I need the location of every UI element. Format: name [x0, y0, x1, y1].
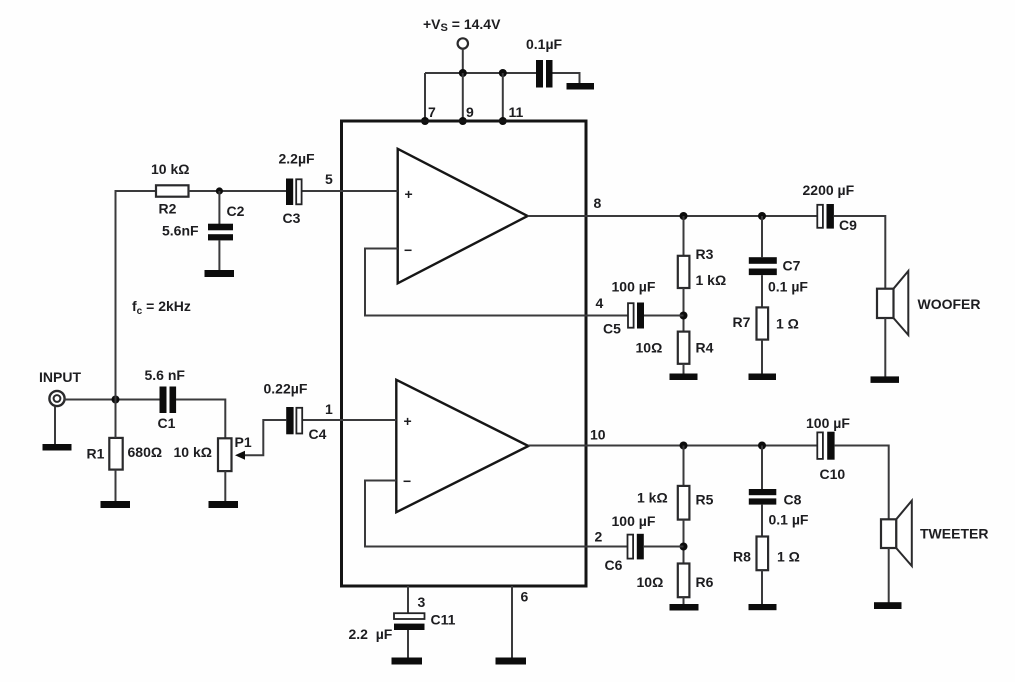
svg-text:R4: R4 [696, 340, 714, 356]
resistor R2 [151, 161, 189, 217]
wire supply vertical [462, 49, 464, 73]
svg-text:1 kΩ: 1 kΩ [696, 272, 727, 288]
wire connector ground [54, 407, 56, 445]
junction pin9 [459, 117, 467, 125]
wire C2 top [218, 191, 220, 224]
capacitor C2 [162, 203, 245, 240]
ground bypass [567, 83, 595, 90]
ground R4 [670, 374, 698, 381]
svg-text:C3: C3 [283, 210, 301, 226]
resistor R5 [637, 486, 714, 520]
svg-text:0.1 µF: 0.1 µF [769, 512, 809, 528]
wire woofer to ground [884, 318, 886, 377]
svg-text:100 µF: 100 µF [612, 279, 656, 295]
wire A2 output pin10 [528, 445, 817, 447]
resistor R7 [733, 307, 799, 339]
wire pin3 [407, 586, 409, 613]
svg-text:C8: C8 [784, 492, 802, 508]
capacitor C8 [749, 489, 809, 528]
junction rail-9 [459, 69, 467, 77]
ground R1 [101, 501, 131, 508]
junction R3-R4-C5 [680, 312, 688, 320]
svg-text:100 µF: 100 µF [612, 513, 656, 529]
svg-text:C2: C2 [227, 203, 245, 219]
wire R5 top [683, 446, 685, 486]
svg-text:6: 6 [521, 589, 529, 605]
svg-text:−: − [404, 242, 412, 258]
svg-text:0.1µF: 0.1µF [526, 36, 563, 52]
wire supply rail [425, 72, 536, 74]
svg-text:1 kΩ: 1 kΩ [637, 490, 668, 506]
svg-text:C10: C10 [820, 466, 846, 482]
svg-text:0.22µF: 0.22µF [264, 381, 308, 397]
wire pin1 input to A2 [303, 419, 396, 421]
svg-text:10Ω: 10Ω [637, 574, 664, 590]
resistor R4 [636, 332, 714, 364]
resistor R6 [637, 564, 714, 598]
svg-text:10: 10 [590, 427, 606, 443]
svg-text:7: 7 [428, 104, 436, 120]
op-amp A2 [396, 380, 528, 512]
svg-text:R1: R1 [87, 446, 105, 462]
svg-text:R2: R2 [159, 201, 177, 217]
wire A1 output pin8 [528, 215, 817, 217]
wire P1 wiper to C4 [244, 420, 287, 455]
ground R6 [670, 604, 699, 611]
junction pin7 [421, 117, 429, 125]
wire tweeter to ground [888, 548, 890, 603]
svg-text:2200 µF: 2200 µF [803, 182, 855, 198]
wire C7 top [761, 216, 763, 257]
ground woofer [871, 376, 900, 383]
potentiometer P1 [174, 434, 252, 471]
junction pin8-R3 [680, 212, 688, 220]
svg-text:C11: C11 [431, 612, 456, 628]
svg-text:2.2 µF: 2.2 µF [349, 626, 393, 642]
svg-text:+VS = 14.4V: +VS = 14.4V [423, 16, 501, 34]
wire left rail up [116, 191, 157, 400]
junction pin11 [499, 117, 507, 125]
wire C1 to P1 [176, 400, 225, 438]
svg-text:−: − [403, 473, 411, 489]
wire P1 bottom [224, 471, 226, 502]
svg-text:10 kΩ: 10 kΩ [151, 161, 189, 177]
wire R7 bottom [761, 340, 763, 374]
P1 wiper arrow [235, 451, 245, 460]
resistor R3 [678, 246, 726, 288]
wire R5 to R6 [683, 520, 685, 564]
svg-text:INPUT: INPUT [39, 369, 81, 385]
wire R3 top [683, 216, 685, 256]
svg-text:8: 8 [594, 195, 602, 211]
resistor R1 [87, 438, 163, 470]
wire connector to node [64, 399, 160, 401]
capacitor C3 [279, 151, 316, 227]
svg-text:5.6nF: 5.6nF [162, 223, 199, 239]
wire pin5 input to A1 [303, 190, 398, 192]
svg-text:1: 1 [325, 401, 333, 417]
svg-text:+: + [405, 186, 413, 202]
svg-text:5.6 nF: 5.6 nF [145, 367, 186, 383]
wire C7 to R7 [761, 275, 763, 307]
junction R2-C2 [216, 187, 223, 194]
svg-text:TWEETER: TWEETER [920, 526, 988, 542]
svg-text:2: 2 [595, 529, 603, 545]
svg-text:R6: R6 [696, 574, 714, 590]
capacitor C11 [349, 612, 456, 643]
capacitor C10 [806, 415, 850, 482]
capacitor 0.1uF supply bypass [526, 36, 563, 88]
wire C11 bottom [407, 630, 409, 658]
svg-text:WOOFER: WOOFER [918, 296, 981, 312]
wire R6 bottom [683, 597, 685, 604]
wire R4 bottom [683, 364, 685, 374]
svg-text:100 µF: 100 µF [806, 415, 850, 431]
svg-text:C9: C9 [839, 217, 857, 233]
capacitor C5 [603, 279, 656, 337]
junction R5-R6-C6 [680, 543, 688, 551]
ground R7 [749, 374, 777, 381]
svg-text:10 kΩ: 10 kΩ [174, 444, 212, 460]
ground pin6 [496, 658, 527, 665]
speaker WOOFER [877, 271, 981, 335]
wire R3 to R4 [683, 288, 685, 332]
wire A2 feedback [365, 481, 628, 547]
ground R8 [749, 604, 777, 610]
wire pin11 [502, 73, 504, 121]
svg-text:R7: R7 [733, 314, 751, 330]
svg-text:9: 9 [466, 104, 474, 120]
wire A1 feedback [365, 249, 628, 316]
svg-text:C1: C1 [158, 415, 176, 431]
wire R2 to C3 [189, 190, 287, 192]
svg-text:C4: C4 [309, 426, 327, 442]
wire pin7 [424, 73, 426, 121]
ground P1 [209, 501, 239, 508]
ground C2 [205, 270, 235, 277]
wire C6 to junction [644, 546, 684, 548]
capacitor C7 [749, 257, 809, 294]
junction pin10-C8 [758, 442, 766, 450]
ground tweeter [874, 602, 902, 609]
wire R1 bottom [115, 470, 117, 502]
supply terminal [458, 38, 468, 48]
op-amp A1 [398, 149, 528, 283]
junction rail-11 [499, 69, 507, 77]
svg-text:3: 3 [418, 594, 426, 610]
svg-text:C5: C5 [603, 321, 621, 337]
svg-text:C6: C6 [605, 557, 623, 573]
svg-text:5: 5 [325, 171, 333, 187]
svg-text:680Ω: 680Ω [128, 444, 163, 460]
junction pin8-C7 [758, 212, 766, 220]
junction input node [112, 396, 120, 404]
capacitor C1 [145, 367, 186, 431]
IC U1 box [342, 121, 587, 586]
wire C8 top [761, 446, 763, 490]
svg-text:R8: R8 [733, 549, 751, 565]
svg-text:fc = 2kHz: fc = 2kHz [132, 298, 191, 317]
svg-text:+: + [404, 413, 412, 429]
resistor R8 [733, 537, 800, 571]
svg-text:10Ω: 10Ω [636, 340, 663, 356]
ground input [43, 444, 72, 451]
capacitor C9 [803, 182, 858, 233]
svg-text:11: 11 [509, 104, 524, 120]
svg-text:2.2µF: 2.2µF [279, 151, 316, 167]
svg-text:P1: P1 [235, 434, 252, 450]
speaker TWEETER [881, 501, 988, 566]
svg-text:R5: R5 [696, 492, 714, 508]
wire C10 to tweeter [835, 446, 889, 520]
wire R8 bottom [761, 570, 763, 604]
wire pin6 [511, 586, 513, 658]
wire R1 top [115, 400, 117, 438]
ground C11 [392, 658, 423, 665]
wire C8 to R8 [761, 505, 763, 537]
junction pin10-R5 [680, 442, 688, 450]
wire C9 to woofer [834, 216, 885, 289]
svg-text:C7: C7 [783, 258, 801, 274]
svg-text:1 Ω: 1 Ω [777, 549, 800, 565]
input connector J1 [49, 391, 64, 406]
wire C5 to junction [644, 315, 684, 317]
capacitor C6 [605, 513, 656, 573]
wire C2 bottom [218, 240, 220, 270]
wire pin9 [462, 73, 464, 121]
capacitor C4 [264, 381, 327, 443]
wire bypass to ground [553, 73, 580, 84]
svg-text:4: 4 [596, 295, 604, 311]
svg-text:R3: R3 [696, 246, 714, 262]
svg-text:0.1 µF: 0.1 µF [768, 279, 808, 295]
svg-text:1 Ω: 1 Ω [776, 316, 799, 332]
